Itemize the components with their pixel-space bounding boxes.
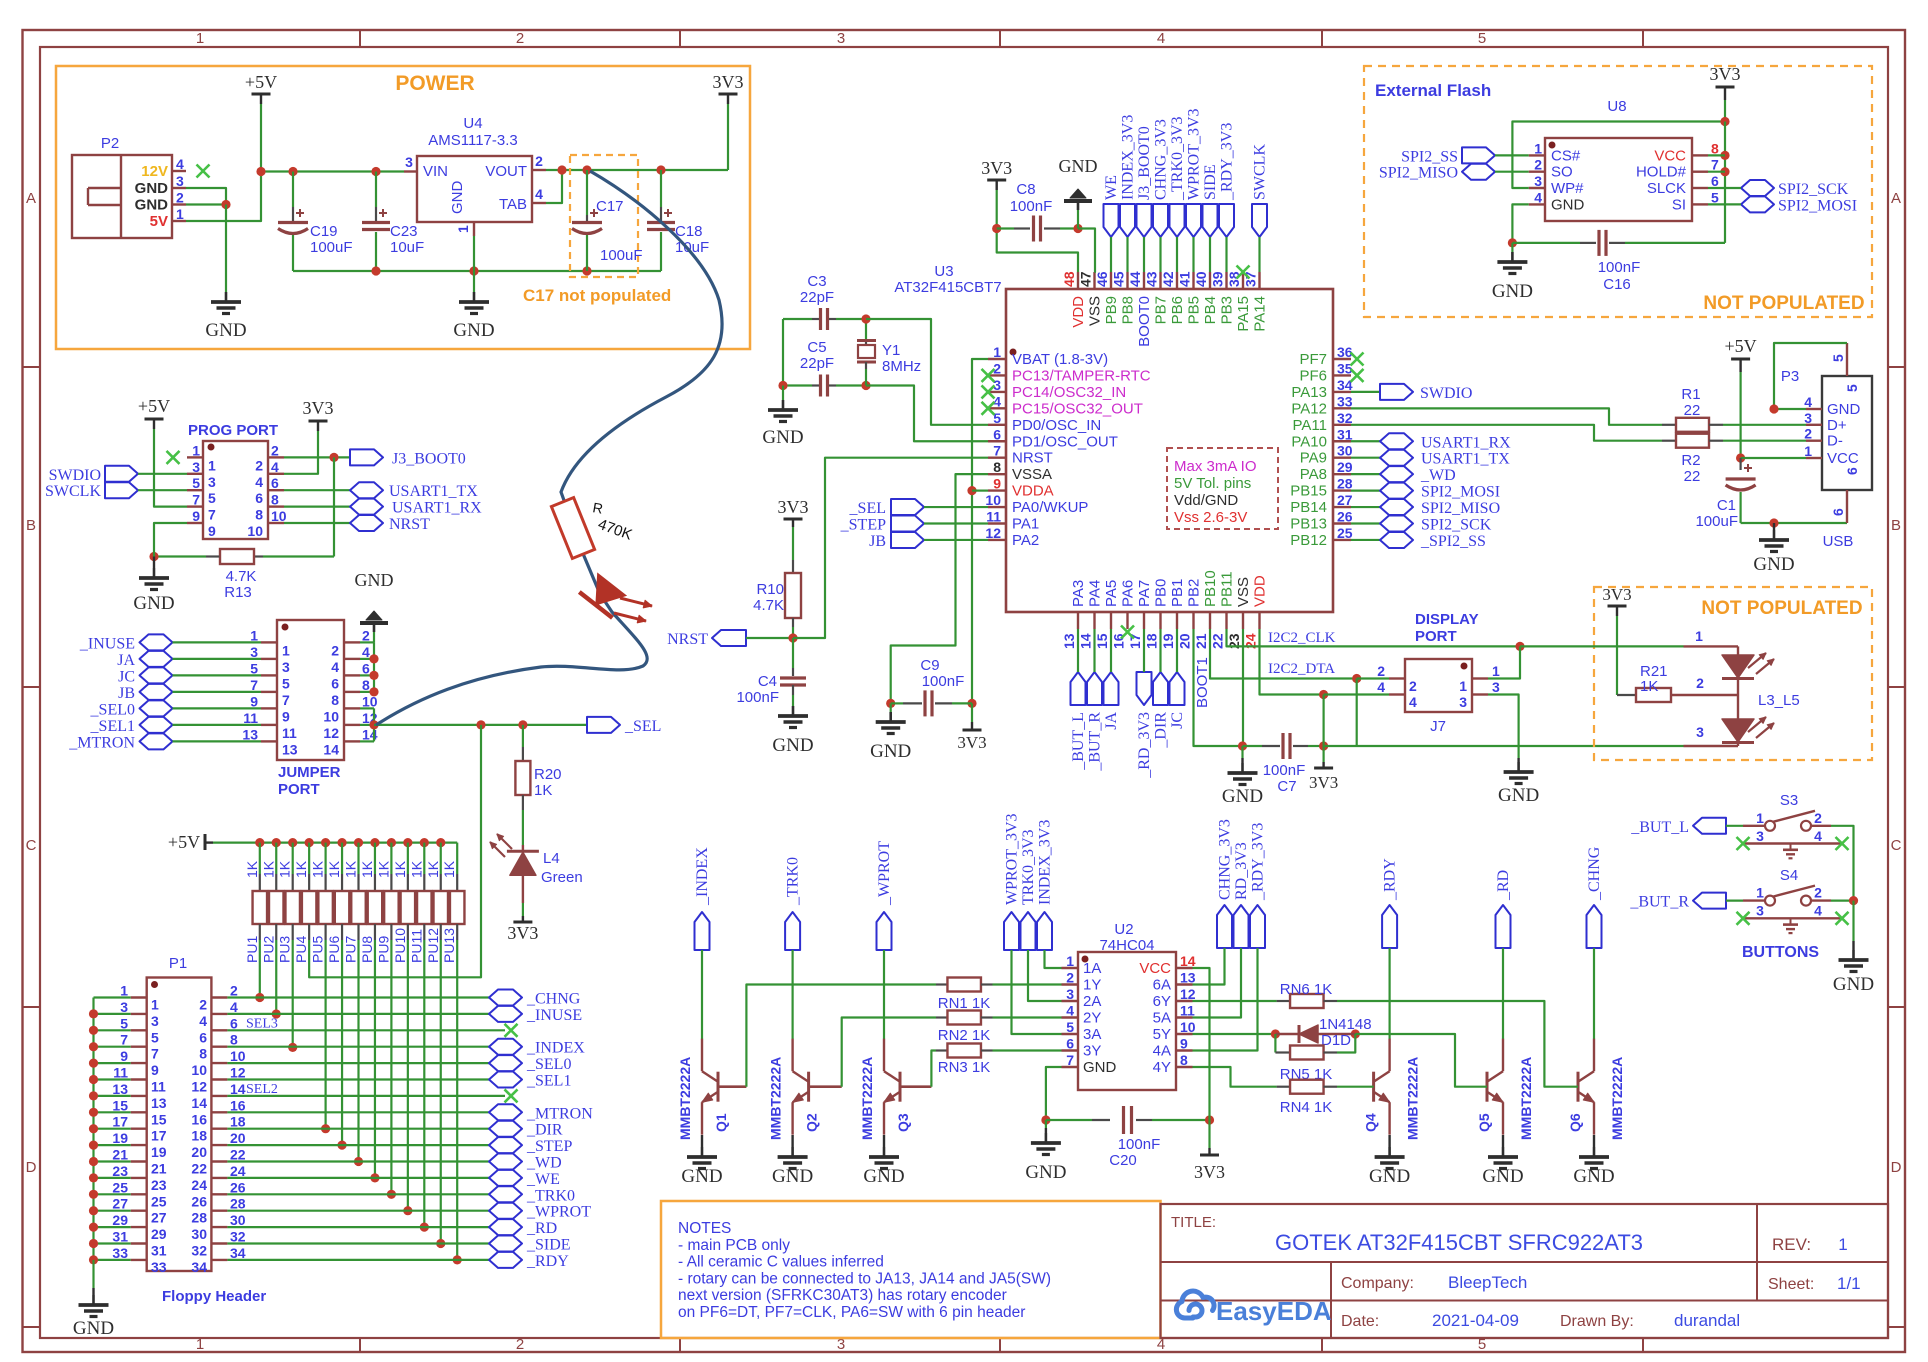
svg-text:9: 9 [151, 1062, 159, 1078]
svg-text:100nF: 100nF [1010, 198, 1053, 215]
svg-text:100nF: 100nF [1598, 259, 1641, 276]
svg-text:PU12: PU12 [425, 928, 441, 963]
no-connect X pin 38 [1237, 266, 1250, 279]
svg-text:SPI2_MOSI: SPI2_MOSI [1421, 484, 1500, 501]
svg-text:4: 4 [1066, 1003, 1074, 1019]
svg-text:SWDIO: SWDIO [49, 467, 101, 484]
svg-text:36: 36 [1337, 344, 1353, 360]
svg-text:2: 2 [1066, 970, 1074, 986]
wire I2C2_DTA to J7 pin2 [1357, 677, 1389, 679]
svg-text:_INUSE: _INUSE [526, 1007, 582, 1024]
svg-text:R1: R1 [1681, 386, 1700, 403]
svg-text:SWCLK: SWCLK [45, 483, 101, 500]
svg-text:AMS1117-3.3: AMS1117-3.3 [428, 132, 518, 149]
svg-text:_RD: _RD [526, 1220, 557, 1237]
svg-text:RN4 1K: RN4 1K [1280, 1099, 1333, 1116]
svg-text:3V3: 3V3 [1309, 773, 1338, 792]
port TRK0_3V3 [1021, 912, 1036, 950]
svg-text:D1D: D1D [1321, 1032, 1351, 1049]
freehand red LED symbol [579, 572, 628, 618]
switch S3 unused contacts [1743, 842, 1842, 844]
svg-text:9: 9 [1180, 1036, 1188, 1052]
dashed info box Max 3mA IO [1167, 448, 1278, 529]
svg-text:_BUT_R: _BUT_R [1629, 894, 1689, 911]
svg-text:VSS: VSS [1235, 577, 1252, 607]
svg-text:1K: 1K [244, 860, 260, 878]
port J3_BOOT0 [1137, 204, 1152, 237]
svg-text:4: 4 [331, 659, 339, 675]
wire 3V3 net to J7 pin4 [1324, 693, 1389, 695]
svg-text:GND: GND [1833, 974, 1874, 995]
LED L3 [1520, 645, 1684, 647]
USB ground rail [1741, 522, 1847, 524]
wire +5V to prog pin7 [154, 429, 187, 507]
port USART1_TX [284, 489, 350, 491]
svg-text:22: 22 [191, 1161, 207, 1177]
ground rail under caps [293, 270, 661, 272]
regulator U4 AMS1117-3.3 [417, 156, 532, 222]
svg-text:10: 10 [191, 1062, 207, 1078]
svg-text:2: 2 [1814, 885, 1822, 901]
svg-text:2: 2 [362, 627, 370, 643]
svg-text:+5V: +5V [1725, 336, 1757, 356]
resistor RN2 1K [809, 1085, 842, 1088]
svg-text:33: 33 [1337, 393, 1353, 409]
svg-text:6A: 6A [1153, 977, 1171, 994]
wire PA11 to R2 (USB D-) [1351, 425, 1662, 441]
svg-text:CHNG_3V3: CHNG_3V3 [1153, 119, 1170, 200]
svg-text:_INDEX: _INDEX [526, 1040, 585, 1057]
svg-text:13: 13 [242, 726, 258, 742]
svg-text:SPI2_SCK: SPI2_SCK [1778, 181, 1849, 198]
svg-text:12: 12 [323, 725, 339, 741]
svg-text:2: 2 [199, 997, 207, 1013]
svg-text:5: 5 [151, 1029, 159, 1045]
svg-text:_DIR: _DIR [526, 1122, 563, 1139]
wire 3V3 node to LED L5 return [1324, 745, 1684, 747]
port _SEL [587, 717, 620, 733]
svg-text:4: 4 [1409, 694, 1417, 710]
svg-text:29: 29 [1337, 459, 1353, 475]
ground under C4 [792, 706, 795, 716]
svg-text:100uF: 100uF [1695, 513, 1738, 530]
svg-text:R20: R20 [534, 766, 562, 783]
svg-text:9: 9 [208, 523, 216, 539]
svg-text:PC14/OSC32_IN: PC14/OSC32_IN [1012, 384, 1126, 401]
svg-text:SI: SI [1672, 196, 1686, 213]
svg-text:GND: GND [453, 320, 494, 341]
svg-text:SPI2_SS: SPI2_SS [1401, 148, 1458, 165]
svg-text:7: 7 [993, 443, 1001, 459]
wire P2 pin3 to pin2 node [186, 188, 226, 205]
svg-text:21: 21 [151, 1161, 167, 1177]
svg-text:32: 32 [1337, 410, 1353, 426]
wire PU4 to _SEL net [309, 725, 481, 977]
svg-text:24: 24 [230, 1163, 246, 1179]
svg-text:C7: C7 [1277, 778, 1296, 795]
svg-text:SPI2_MOSI: SPI2_MOSI [1778, 197, 1857, 214]
svg-text:- rotary can be connected to J: - rotary can be connected to JA13, JA14 … [678, 1270, 1051, 1287]
svg-text:BOOT1: BOOT1 [1194, 657, 1211, 708]
wire and port _SEL0 [227, 1062, 489, 1064]
svg-text:DISPLAY: DISPLAY [1415, 611, 1479, 628]
svg-text:External Flash: External Flash [1375, 81, 1491, 100]
svg-text:PA2: PA2 [1012, 532, 1039, 549]
svg-text:TAB: TAB [499, 196, 527, 213]
svg-text:12: 12 [1180, 986, 1196, 1002]
svg-text:PB14: PB14 [1290, 499, 1327, 516]
wire RD_3V3 to 5A [1193, 948, 1242, 1018]
wire crystal bottom to PD1 [866, 386, 988, 442]
resistor PU4 1K [308, 843, 310, 874]
svg-text:5A: 5A [1153, 1010, 1171, 1027]
svg-text:1K: 1K [534, 782, 552, 799]
wires PU5-PU13 to floppy rows [325, 940, 327, 1129]
svg-text:PB1: PB1 [1169, 579, 1186, 607]
port RD_3V3 [1234, 905, 1249, 948]
svg-text:22pF: 22pF [800, 289, 834, 306]
transistor Q5 MMBT2222A [1486, 1072, 1489, 1102]
resistor PU7 1K [357, 843, 359, 874]
svg-text:6: 6 [993, 426, 1001, 442]
resistor RN5 1K [1274, 1034, 1276, 1053]
no-connect X pin 16 [1121, 626, 1134, 639]
svg-text:1K: 1K [392, 860, 408, 878]
svg-text:GND: GND [1025, 1162, 1066, 1183]
svg-text:3: 3 [1696, 724, 1704, 740]
svg-text:4: 4 [1804, 394, 1812, 410]
wire P2 pin2 to GND [186, 203, 226, 205]
port _TRK0_3V3 [1170, 204, 1185, 237]
svg-text:28: 28 [230, 1196, 246, 1212]
svg-text:22: 22 [230, 1147, 246, 1163]
svg-text:L4: L4 [543, 850, 560, 867]
port JC [1170, 672, 1185, 705]
wire S3 pin2 down [1831, 826, 1854, 901]
svg-text:13: 13 [112, 1081, 128, 1097]
svg-text:46: 46 [1094, 271, 1110, 287]
port _RD [1496, 905, 1511, 948]
svg-text:3: 3 [1756, 903, 1764, 919]
svg-text:PU9: PU9 [375, 936, 391, 963]
svg-text:USART1_RX: USART1_RX [392, 500, 482, 517]
svg-text:31: 31 [151, 1243, 167, 1259]
svg-text:47: 47 [1078, 271, 1094, 287]
connector P3 USB [1822, 376, 1872, 490]
svg-text:3: 3 [1492, 679, 1500, 695]
svg-text:GND: GND [1059, 156, 1098, 176]
title block [1161, 1204, 1889, 1338]
svg-text:Q2: Q2 [804, 1113, 820, 1132]
transistor Q1 MMBT2222A [717, 1072, 720, 1102]
svg-text:PROG PORT: PROG PORT [188, 422, 278, 439]
svg-text:PB6: PB6 [1169, 296, 1186, 324]
wire +5V down to rail [260, 104, 262, 172]
svg-text:SPI2_MISO: SPI2_MISO [1379, 165, 1458, 182]
svg-text:PU11: PU11 [408, 929, 424, 963]
svg-text:GND: GND [449, 181, 466, 215]
capacitor C18 10uF [660, 170, 662, 207]
svg-text:1K: 1K [310, 860, 326, 878]
svg-text:5: 5 [192, 475, 200, 491]
svg-text:4: 4 [230, 999, 238, 1015]
svg-text:L3_L5: L3_L5 [1758, 692, 1800, 709]
svg-text:30: 30 [191, 1226, 207, 1242]
svg-text:WP#: WP# [1551, 180, 1584, 197]
svg-text:26: 26 [1337, 509, 1353, 525]
svg-text:7: 7 [151, 1046, 159, 1062]
svg-text:1K: 1K [260, 860, 276, 878]
svg-text:25: 25 [151, 1193, 167, 1209]
port _BUT_R [1693, 893, 1726, 909]
wire SWDIO to pin3 [138, 473, 187, 475]
svg-text:1Y: 1Y [1083, 977, 1101, 994]
svg-text:MMBT2222A: MMBT2222A [859, 1057, 875, 1140]
svg-text:8: 8 [271, 492, 279, 508]
svg-text:C9: C9 [920, 657, 939, 674]
svg-text:13: 13 [1061, 633, 1077, 649]
svg-text:3V3: 3V3 [981, 158, 1012, 178]
svg-text:U3: U3 [934, 263, 953, 280]
svg-text:VDD: VDD [1252, 575, 1269, 607]
svg-text:18: 18 [191, 1128, 207, 1144]
svg-text:5: 5 [1478, 30, 1486, 47]
svg-text:_SEL0: _SEL0 [90, 701, 135, 718]
svg-text:5: 5 [1844, 384, 1860, 392]
svg-text:GND: GND [1083, 1059, 1117, 1076]
svg-text:WPROT_3V3: WPROT_3V3 [1186, 108, 1203, 200]
no-connect X on prog pin 1 [167, 451, 180, 464]
transistor Q3 MMBT2222A [899, 1072, 902, 1102]
svg-text:18: 18 [1144, 633, 1160, 649]
svg-text:10: 10 [271, 508, 287, 524]
capacitor C20 100nF [1046, 1119, 1092, 1121]
svg-text:- main PCB only: - main PCB only [678, 1237, 790, 1254]
svg-text:1: 1 [196, 30, 204, 47]
svg-text:2: 2 [1409, 678, 1417, 694]
svg-text:28: 28 [1337, 476, 1353, 492]
svg-text:12V: 12V [141, 163, 168, 180]
port _INUSE [140, 634, 173, 650]
svg-text:10: 10 [1180, 1019, 1196, 1035]
svg-text:GND: GND [135, 197, 169, 214]
svg-text:19: 19 [151, 1144, 167, 1160]
svg-text:1K: 1K [277, 860, 293, 878]
svg-text:8: 8 [1711, 140, 1719, 156]
svg-text:SWCLK: SWCLK [1252, 144, 1269, 200]
svg-text:_STEP: _STEP [840, 517, 886, 534]
svg-text:5V Tol. pins: 5V Tol. pins [1174, 475, 1251, 492]
svg-text:6: 6 [255, 490, 263, 506]
svg-text:3: 3 [208, 474, 216, 490]
svg-text:3: 3 [1066, 986, 1074, 1002]
svg-text:22: 22 [1210, 633, 1226, 649]
svg-text:2: 2 [271, 442, 279, 458]
flash U8 [1545, 138, 1692, 221]
svg-text:74HC04: 74HC04 [1099, 937, 1154, 954]
svg-text:100nF: 100nF [736, 689, 779, 706]
svg-text:MMBT2222A: MMBT2222A [1609, 1057, 1625, 1140]
svg-text:4: 4 [1814, 828, 1822, 844]
svg-text:1: 1 [282, 642, 290, 658]
svg-text:_MTRON: _MTRON [526, 1105, 593, 1122]
transistor Q6 MMBT2222A [1577, 1072, 1580, 1102]
svg-text:NRST: NRST [1012, 450, 1053, 467]
svg-text:VCC: VCC [1139, 960, 1171, 977]
svg-text:32: 32 [191, 1243, 207, 1259]
svg-text:7: 7 [120, 1032, 128, 1048]
resistor R21 1K [1616, 616, 1618, 695]
svg-text:_TRK0_3V3: _TRK0_3V3 [1169, 116, 1186, 201]
LED L4 emission arrows [497, 834, 512, 849]
resistor RN3 1K [900, 1085, 931, 1088]
svg-text:PB5: PB5 [1186, 296, 1203, 324]
svg-text:13: 13 [282, 741, 298, 757]
port _SEL1 [140, 717, 173, 733]
resistor PU5 1K [325, 843, 327, 874]
wire VSSA to ground net [891, 474, 988, 703]
svg-text:15: 15 [151, 1111, 167, 1127]
port _SEL0 [140, 700, 173, 716]
svg-text:2: 2 [1814, 810, 1822, 826]
svg-text:_RDY: _RDY [526, 1253, 569, 1270]
svg-text:USB: USB [1823, 533, 1854, 550]
svg-text:PD0/OSC_IN: PD0/OSC_IN [1012, 417, 1101, 434]
port INDEX_3V3 [1037, 912, 1052, 950]
port CHNG_3V3 [1153, 204, 1168, 237]
svg-text:1K: 1K [441, 860, 457, 878]
svg-text:next version (SFRKC30AT3) has: next version (SFRKC30AT3) has rotary enc… [678, 1287, 1007, 1304]
svg-text:3: 3 [192, 459, 200, 475]
svg-text:27: 27 [151, 1210, 167, 1226]
svg-text:PU6: PU6 [326, 936, 342, 963]
svg-text:3V3: 3V3 [1710, 64, 1741, 84]
svg-text:18: 18 [230, 1114, 246, 1130]
+5V pull-up rail [213, 841, 457, 843]
svg-text:12: 12 [985, 525, 1001, 541]
svg-text:1: 1 [1492, 663, 1500, 679]
svg-text:26: 26 [230, 1179, 246, 1195]
wire pin9 down to R13 node [154, 523, 187, 557]
svg-text:RN2 1K: RN2 1K [938, 1027, 991, 1044]
svg-text:MMBT2222A: MMBT2222A [677, 1057, 693, 1140]
svg-text:JC: JC [118, 668, 135, 685]
svg-text:9: 9 [120, 1048, 128, 1064]
svg-text:VSS: VSS [1087, 296, 1104, 326]
switch S4 [1743, 899, 1765, 901]
svg-text:3: 3 [282, 659, 290, 675]
svg-text:D: D [1891, 1159, 1902, 1176]
port WPROT_3V3 [1186, 204, 1201, 237]
svg-text:1K: 1K [293, 860, 309, 878]
svg-text:PA1: PA1 [1012, 516, 1039, 533]
dashed not-populated box external flash [1364, 66, 1872, 317]
svg-text:J3_BOOT0: J3_BOOT0 [1136, 126, 1153, 200]
3V3 flag at C7 [1322, 746, 1324, 762]
svg-text:PU1: PU1 [244, 936, 260, 963]
svg-text:_TRK0: _TRK0 [526, 1187, 575, 1204]
svg-text:U2: U2 [1114, 921, 1133, 938]
U3 left side pins [988, 358, 1006, 360]
svg-text:2: 2 [1804, 426, 1812, 442]
svg-text:J7: J7 [1430, 718, 1446, 735]
svg-text:4: 4 [255, 474, 263, 490]
svg-text:GND: GND [1573, 1166, 1614, 1187]
svg-text:6: 6 [1711, 173, 1719, 189]
svg-text:100nF: 100nF [1263, 762, 1306, 779]
port NRST [712, 630, 746, 646]
svg-text:NOT POPULATED: NOT POPULATED [1703, 293, 1864, 314]
svg-text:34: 34 [191, 1259, 207, 1275]
+5V rail to U4 VIN [261, 170, 404, 172]
svg-text:4: 4 [1814, 903, 1822, 919]
svg-text:11: 11 [282, 725, 297, 741]
svg-text:43: 43 [1144, 271, 1160, 287]
svg-text:4: 4 [176, 156, 184, 172]
svg-text:PA14: PA14 [1252, 296, 1269, 332]
svg-text:10: 10 [247, 523, 263, 539]
power flag 3V3 under L4 [513, 921, 532, 924]
svg-text:35: 35 [1337, 360, 1353, 376]
svg-text:PB13: PB13 [1290, 516, 1327, 533]
svg-text:27: 27 [112, 1196, 128, 1212]
svg-text:8: 8 [255, 507, 263, 523]
svg-text:_SPI2_SS: _SPI2_SS [1420, 533, 1486, 550]
svg-text:Q4: Q4 [1363, 1113, 1379, 1132]
svg-text:30: 30 [230, 1212, 246, 1228]
svg-text:_SIDE: _SIDE [526, 1237, 571, 1254]
svg-text:2: 2 [255, 457, 263, 473]
svg-text:9: 9 [282, 708, 290, 724]
svg-text:33: 33 [151, 1259, 167, 1275]
svg-text:2: 2 [993, 360, 1001, 376]
svg-text:34: 34 [230, 1245, 246, 1261]
svg-text:2: 2 [516, 1336, 524, 1353]
port _WD [1351, 473, 1380, 475]
svg-text:10: 10 [230, 1048, 246, 1064]
svg-text:SEL2: SEL2 [246, 1082, 278, 1097]
svg-text:4.7K: 4.7K [753, 597, 784, 614]
svg-text:1N4148: 1N4148 [1319, 1016, 1372, 1033]
svg-text:20: 20 [1177, 633, 1193, 649]
svg-text:Q5: Q5 [1476, 1113, 1492, 1132]
port _DIR [1153, 672, 1168, 705]
svg-text:_SEL1: _SEL1 [90, 718, 135, 735]
port CHNG_3V3 [1217, 905, 1232, 948]
diode D1D 1N4148 [1193, 1033, 1276, 1035]
wire I2C2_CLK to J7 pin1 [1488, 646, 1520, 678]
wire WPROT_3V3 to 3A [1012, 950, 1062, 1034]
svg-text:EasyEDA: EasyEDA [1216, 1296, 1332, 1326]
wire PB2/BOOT1 to ground node [1194, 629, 1243, 746]
svg-text:+5V: +5V [245, 72, 277, 92]
svg-text:2: 2 [1377, 663, 1385, 679]
svg-text:3: 3 [1756, 828, 1764, 844]
svg-text:Q1: Q1 [713, 1113, 729, 1132]
svg-text:on PF6=DT, PF7=CLK, PA6=SW wit: on PF6=DT, PF7=CLK, PA6=SW with 6 pin he… [678, 1304, 1025, 1321]
switch S3 [1743, 825, 1765, 827]
port USART1_TX [1351, 457, 1380, 459]
port _RDY [1382, 905, 1397, 948]
IC U2 74HC04 [1078, 952, 1176, 1090]
ground at P2 [225, 292, 228, 302]
wire pin2 node down to R13 [333, 457, 335, 556]
port SPI2_MOSI (flash) [1741, 196, 1774, 212]
svg-text:RN3 1K: RN3 1K [938, 1059, 991, 1076]
svg-text:BOOT0: BOOT0 [1136, 296, 1153, 347]
svg-text:C8: C8 [1016, 181, 1035, 198]
svg-text:_RD: _RD [1495, 870, 1512, 901]
